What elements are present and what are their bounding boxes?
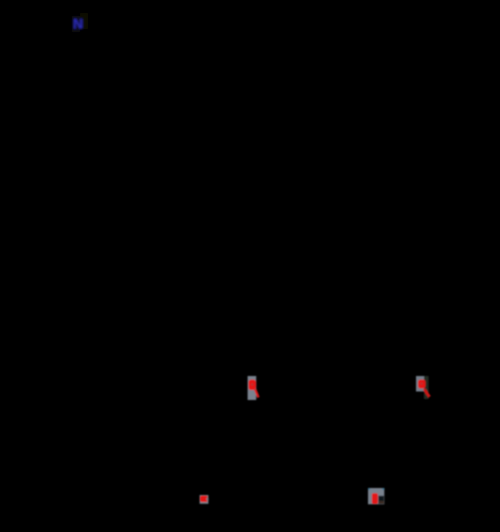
O3 glyph O xyxy=(200,496,208,502)
O4 cyan corner tint left xyxy=(368,488,370,490)
O2 red half-bond stub xyxy=(424,389,430,397)
O1 glyph O xyxy=(249,380,257,390)
O2 label backing xyxy=(416,376,424,392)
N1 faint H backing xyxy=(80,13,88,29)
node O3: oxygen label (bottom-left, small) xyxy=(200,495,209,504)
O4 cyan corner tint right xyxy=(382,488,384,490)
O3 label backing xyxy=(200,495,209,504)
N1 label backing xyxy=(72,16,80,32)
svg-text:N: N xyxy=(73,16,83,31)
O1 red half-bond stub xyxy=(255,390,258,398)
O4 glyph O red bar xyxy=(372,493,378,504)
node O2: oxygen label (mid-right) xyxy=(416,376,430,399)
O4 brownish lower-right patch xyxy=(378,501,384,504)
O4 label backing xyxy=(368,488,384,504)
node N1: amine nitrogen label (top-left) xyxy=(72,13,88,32)
node O4: hydroxyl OH label (bottom-right) xyxy=(368,488,384,504)
O2 glyph O xyxy=(418,380,425,389)
O1 label backing xyxy=(248,376,257,400)
O2 dark side patch xyxy=(424,376,429,399)
O4 dark H glyph patch xyxy=(378,496,384,501)
node O1: oxygen label (mid-left, tall backing) xyxy=(248,376,259,400)
